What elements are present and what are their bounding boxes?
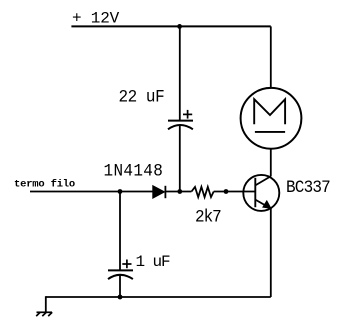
svg-text:+ 12V: + 12V: [72, 10, 120, 28]
transistor Q1 collector stroke: [255, 176, 271, 185]
node A: junction diode / C1 / R1: [177, 189, 182, 194]
wire: rail corner down to ground symbol: [45, 296, 47, 312]
diode D1 cathode bar: [164, 186, 166, 198]
diode D1 1N4148 triangle: [153, 186, 165, 199]
transistor Q1 emitter stroke: [255, 200, 270, 209]
node: junction of rail and C1: [177, 24, 182, 29]
motor M1 circle: [241, 88, 302, 149]
svg-text:BC337: BC337: [286, 178, 330, 198]
wire: rail down to C1 top: [179, 26, 181, 120]
svg-text:2k7: 2k7: [195, 208, 221, 228]
wire: resistor to transistor base: [214, 191, 256, 193]
wire: C1 bottom down to node A: [179, 125, 181, 191]
wire: emitter down to bottom rail: [270, 208, 272, 297]
svg-text:1 uF: 1 uF: [136, 253, 171, 271]
capacitor C2 1uF (polarized): [108, 270, 133, 279]
wire: C2 bottom down to bottom rail: [119, 275, 121, 297]
transistor Q1 emitter arrow: [263, 201, 271, 209]
capacitor C1 polarity plus sign: [183, 110, 192, 119]
motor M1 letter M: [254, 99, 285, 124]
node: junction at resistor output: [224, 189, 229, 194]
capacitor C1 22uF (polarized): [168, 121, 193, 130]
wire: termo filo input to diode anode: [30, 191, 153, 193]
node: junction input wire and C2: [118, 189, 123, 194]
transistor Q1 circle: [243, 175, 279, 211]
wire: node A down to C2 top: [119, 192, 121, 271]
ground symbol: [36, 312, 52, 316]
capacitor C2 polarity plus sign: [122, 260, 131, 269]
wire: diode cathode to node A: [166, 191, 192, 193]
svg-text:termo filo: termo filo: [14, 178, 75, 190]
wire: motor bottom to transistor collector: [270, 149, 272, 177]
wire: rail corner down to motor: [270, 26, 272, 88]
svg-text:1N4148: 1N4148: [104, 162, 164, 182]
transistor Q1 base bar: [254, 178, 256, 207]
resistor R1 2k7 zigzag: [192, 187, 214, 197]
node: junction C2 and bottom rail: [118, 295, 123, 300]
wire: +12V top rail: [71, 25, 270, 27]
svg-text:22 uF: 22 uF: [119, 88, 165, 108]
wire: bottom ground rail: [46, 296, 271, 298]
motor M1 underline: [255, 131, 285, 133]
